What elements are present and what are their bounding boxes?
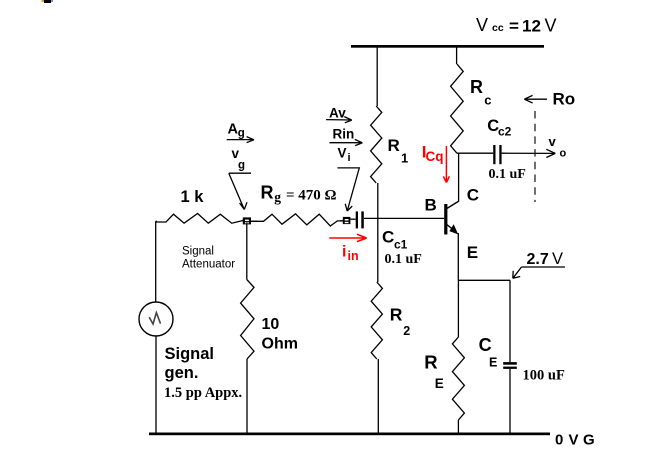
ground rail — [149, 433, 550, 436]
wire Rc to collector — [458, 153, 460, 202]
screen artifact top-left — [42, 0, 45, 2]
output arrowhead — [546, 149, 555, 157]
svg-text:E: E — [435, 376, 444, 391]
svg-text:g: g — [274, 190, 281, 205]
capacitor Cc1 plates — [356, 211, 364, 228]
wire node1 to Rg — [251, 220, 258, 222]
svg-text:Rin: Rin — [333, 126, 355, 141]
svg-text:V: V — [476, 15, 488, 35]
label vg — [232, 146, 246, 172]
wire junction to CE — [509, 280, 511, 362]
wire R1 to R2 — [377, 183, 379, 282]
node square 1 — [243, 217, 251, 224]
svg-text:g: g — [238, 160, 245, 172]
svg-text:E: E — [489, 356, 497, 370]
capacitor CE plates — [503, 362, 517, 369]
svg-text:v: v — [549, 134, 557, 149]
resistor 10 Ohm — [241, 280, 254, 360]
resistor RE — [452, 337, 464, 420]
label R2 — [390, 305, 411, 339]
svg-text:= 470 Ω: = 470 Ω — [286, 188, 337, 204]
label Signal Attenuator — [182, 246, 235, 271]
Ro arrow — [524, 95, 547, 103]
svg-text:c1: c1 — [394, 238, 408, 252]
signal generator circle — [139, 302, 173, 336]
wire 10 Ohm to ground — [246, 359, 248, 434]
wire emitter to RE — [457, 280, 459, 337]
svg-text:G: G — [583, 432, 595, 449]
label 2.7 V — [527, 250, 564, 268]
label Ag — [228, 122, 245, 140]
2.7V pointer arrow — [513, 267, 522, 278]
Vi pointer bracket — [337, 168, 359, 211]
label CE — [479, 335, 498, 370]
svg-text:Ro: Ro — [553, 90, 576, 109]
wire 1k to node1 — [242, 220, 244, 222]
svg-text:12: 12 — [522, 17, 541, 36]
svg-text:C: C — [479, 335, 492, 355]
label Vcc = 12 V — [476, 15, 557, 36]
svg-text:1.5 pp Appx.: 1.5 pp Appx. — [164, 385, 242, 401]
svg-text:R: R — [390, 305, 403, 325]
label 0 V G — [555, 432, 595, 449]
label Signal gen. — [165, 345, 215, 382]
wire signal gen to ground — [155, 336, 157, 434]
label 10 Ohm — [262, 316, 298, 352]
red iin arrow — [329, 234, 366, 241]
wire Rg to node2 — [340, 220, 344, 222]
label Rc — [470, 77, 491, 108]
svg-text:100 uF: 100 uF — [523, 368, 565, 384]
svg-text:R: R — [470, 77, 483, 97]
wire Cc1 to base — [364, 217, 444, 219]
wire left corner — [156, 220, 157, 222]
svg-text:C: C — [382, 228, 394, 247]
svg-text:0.1 uF: 0.1 uF — [489, 167, 526, 182]
svg-text:i: i — [342, 244, 346, 261]
svg-text:V: V — [552, 250, 563, 268]
wire Cc2 to output — [502, 152, 555, 154]
svg-text:Signal: Signal — [165, 345, 215, 363]
svg-text:g: g — [238, 128, 245, 140]
red label iin — [342, 244, 359, 264]
node square 2 — [343, 217, 351, 224]
Vcc power rail — [351, 45, 544, 48]
svg-text:cc: cc — [492, 22, 504, 34]
svg-text:1: 1 — [401, 151, 408, 166]
transistor Q1 emitter stroke — [447, 225, 456, 233]
wire rail to R1 — [376, 47, 378, 106]
svg-text:Cq: Cq — [426, 149, 444, 164]
svg-text:V: V — [338, 145, 347, 160]
svg-text:i: i — [348, 152, 351, 164]
wire rail to Rc — [456, 47, 458, 64]
wire emitter junction horizontal — [458, 279, 510, 281]
svg-text:Attenuator: Attenuator — [182, 259, 235, 271]
svg-text:2.7: 2.7 — [527, 251, 549, 268]
red label ICq — [422, 143, 444, 164]
dashed Ro reference line — [534, 111, 536, 202]
Ag underline arrow — [227, 137, 254, 143]
svg-text:1 k: 1 k — [181, 188, 205, 206]
svg-text:10: 10 — [262, 316, 280, 333]
svg-text:V: V — [545, 16, 557, 36]
2.7V underline — [522, 266, 566, 268]
label Vi — [338, 145, 351, 164]
svg-text:R: R — [388, 136, 400, 155]
svg-text:c: c — [484, 93, 491, 108]
wire node2 to Cc1 — [350, 218, 356, 220]
resistor R1 — [371, 106, 382, 183]
vg pointer arrow — [229, 173, 247, 209]
svg-text:in: in — [348, 249, 359, 263]
label Cc1 — [382, 228, 408, 252]
svg-text:Av: Av — [329, 106, 346, 121]
wire collector to Cc2 — [457, 152, 493, 154]
wire to signal gen — [155, 221, 157, 302]
wire emitter down — [457, 233, 459, 280]
resistor R2 — [371, 282, 382, 359]
resistor 1k — [156, 214, 243, 224]
svg-text:Ohm: Ohm — [262, 335, 298, 352]
Rin underline arrow — [330, 139, 363, 145]
svg-text:0.1 uF: 0.1 uF — [385, 252, 422, 267]
svg-text:2: 2 — [403, 324, 410, 338]
svg-text:R: R — [424, 352, 437, 373]
signal generator waveform mark — [149, 313, 160, 324]
svg-text:=: = — [509, 17, 519, 36]
label Rg = 470 ohm — [261, 182, 337, 204]
svg-text:0: 0 — [555, 432, 563, 449]
transistor Q1 emitter arrow — [449, 224, 458, 234]
label R1 — [388, 136, 409, 166]
label RE — [424, 352, 444, 392]
wire RE to ground — [457, 420, 459, 434]
wire CE to ground — [509, 369, 511, 434]
svg-text:V: V — [569, 432, 579, 449]
label Cc2 — [487, 117, 511, 138]
capacitor Cc2 plates — [493, 145, 501, 164]
svg-text:R: R — [261, 182, 274, 202]
svg-text:o: o — [560, 148, 567, 160]
svg-text:gen.: gen. — [165, 364, 199, 382]
wire R2 to ground — [377, 359, 379, 434]
svg-text:B: B — [425, 196, 437, 215]
vg underline — [229, 172, 251, 174]
resistor Rg — [251, 214, 343, 226]
svg-text:Signal: Signal — [182, 246, 214, 258]
transistor Q1 collector stroke — [447, 202, 458, 209]
transistor Q1 base bar — [444, 204, 447, 235]
Av underline arrow — [326, 117, 352, 123]
red ICq arrow — [443, 146, 449, 183]
label vo — [549, 134, 567, 160]
wire node1 down — [246, 224, 248, 279]
resistor Rc — [451, 64, 464, 153]
svg-text:C: C — [467, 186, 479, 205]
svg-text:c2: c2 — [498, 124, 512, 138]
svg-text:E: E — [467, 243, 478, 262]
